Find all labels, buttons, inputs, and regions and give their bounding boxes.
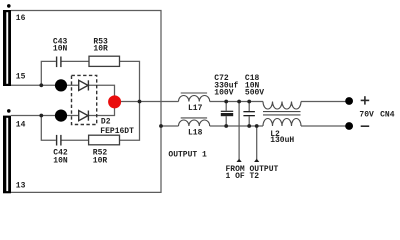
svg-text:13: 13 — [16, 182, 26, 191]
svg-text:OUTPUT 1: OUTPUT 1 — [168, 150, 207, 159]
svg-text:10N: 10N — [53, 157, 68, 166]
svg-text:15: 15 — [16, 72, 26, 81]
svg-text:100V: 100V — [214, 89, 233, 98]
svg-text:D2: D2 — [101, 117, 111, 126]
svg-text:L18: L18 — [188, 129, 203, 138]
svg-text:130uH: 130uH — [270, 136, 294, 145]
svg-text:CN4: CN4 — [380, 111, 395, 120]
svg-text:70V: 70V — [359, 111, 374, 120]
svg-text:500V: 500V — [245, 89, 264, 98]
svg-text:FEP16DT: FEP16DT — [100, 127, 134, 136]
svg-text:L17: L17 — [188, 104, 203, 113]
svg-text:10R: 10R — [93, 157, 108, 166]
svg-text:14: 14 — [16, 121, 26, 130]
svg-text:1 OF T2: 1 OF T2 — [226, 172, 260, 181]
svg-text:16: 16 — [16, 14, 26, 23]
svg-text:10R: 10R — [93, 44, 108, 53]
svg-text:10N: 10N — [53, 44, 68, 53]
